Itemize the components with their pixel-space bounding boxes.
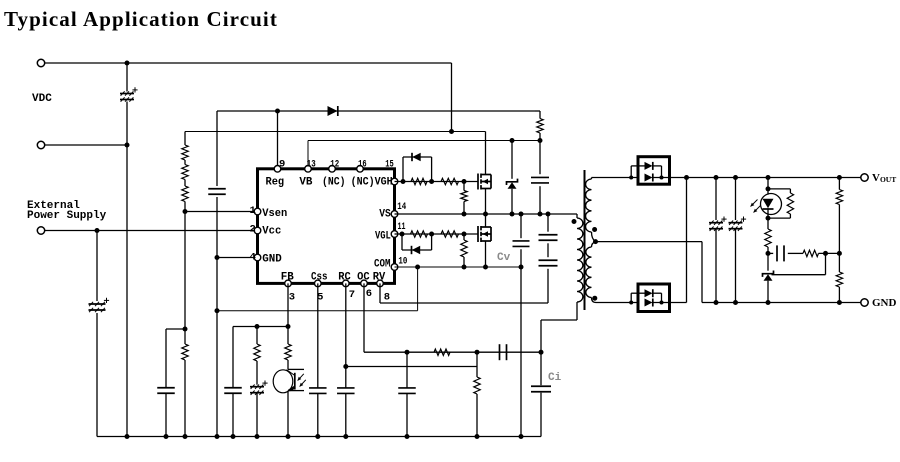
wire secondary lower to rectifier [596, 302, 638, 304]
wire rectifier upper out [653, 177, 687, 179]
svg-text:9: 9 [279, 159, 285, 171]
svg-text:VDC: VDC [32, 93, 52, 105]
node ground bus x166 [164, 434, 169, 439]
inductor T1 primary [577, 214, 583, 320]
capacitor RC [337, 388, 355, 394]
terminal Vout [861, 174, 868, 181]
wire RV return row [217, 265, 420, 311]
node primary phase dot [572, 219, 577, 224]
wire bulk cap column [126, 63, 128, 437]
label FB [281, 272, 294, 284]
wire Reg bootstrap row [217, 111, 535, 437]
node ground bus x521 [519, 434, 524, 439]
node FB divider mid [766, 251, 771, 256]
capacitor bootstrap VB-VS [531, 141, 549, 215]
zener VB-VS clamp [507, 141, 518, 215]
svg-text:10: 10 [398, 256, 407, 268]
pin 13 VB [305, 166, 312, 173]
pin 14 VS [391, 211, 398, 218]
node LED top [766, 186, 771, 191]
svg-text:(NC): (NC) [322, 177, 346, 189]
svg-text:7: 7 [349, 289, 355, 301]
diode rectifier lower (dual) [629, 284, 669, 312]
label pin14 [397, 201, 406, 213]
diode opto LED [751, 178, 782, 219]
wire VDC top rail [44, 63, 451, 132]
label VS [379, 209, 391, 221]
node ground bus x477 [475, 434, 480, 439]
svg-text:RC: RC [338, 272, 351, 284]
node GND e [837, 300, 842, 305]
node ground bus x127 [125, 434, 130, 439]
capacitor FB branch (electrolytic) [250, 381, 268, 437]
pin 2 Vcc [254, 227, 261, 234]
wire Css pin drop [317, 283, 319, 436]
node COM a [462, 265, 467, 270]
label pin2 [250, 223, 256, 235]
node secondary phase dot lower [592, 296, 597, 301]
label pin6 [366, 288, 372, 300]
node OC b [475, 350, 480, 355]
node Vout a [684, 175, 689, 180]
svg-text:Ci: Ci [548, 372, 562, 384]
svg-text:15: 15 [385, 159, 394, 171]
wire transformer core [584, 170, 586, 310]
diode VGL bypass [412, 246, 421, 254]
wire lower drain [485, 214, 487, 227]
node ground bus x407 [405, 434, 410, 439]
node ground bus x288 [286, 434, 291, 439]
label pin13 [307, 159, 316, 171]
wire GND rail [702, 302, 861, 304]
svg-text:FB: FB [281, 272, 294, 284]
capacitor Vcc filter (electrolytic) [89, 298, 110, 312]
capacitor comp series [768, 245, 803, 261]
label pin10 [398, 256, 407, 268]
resistor FB branch [254, 327, 260, 385]
terminal GND [861, 299, 868, 306]
label pin16 [358, 159, 367, 171]
svg-text:VS: VS [379, 209, 391, 221]
resistor VGH pulldown [461, 182, 467, 215]
wire Vcc filter column [97, 231, 541, 437]
capacitor output 2 (electrolytic) [729, 178, 747, 303]
label pin7 [349, 289, 355, 301]
capacitor divider filter [157, 388, 175, 394]
resistor bootstrap [537, 119, 543, 134]
wire VGH row [395, 181, 479, 183]
resistor sense lower [182, 344, 188, 360]
label pin15 [385, 159, 394, 171]
node VDC bulk junction top [125, 61, 130, 66]
label pin5 [317, 292, 323, 304]
resistor OC row [434, 349, 450, 355]
svg-text:RV: RV [373, 272, 386, 284]
wire sense lower column [184, 212, 186, 437]
wire FB row [233, 327, 288, 437]
svg-text:8: 8 [384, 291, 390, 303]
node comp end [823, 251, 828, 256]
diode rectifier upper (dual) [629, 157, 669, 185]
inductor T1 secondary lower [586, 242, 596, 303]
pin 12 NC [329, 166, 336, 173]
wire FB pin drop [287, 283, 289, 326]
label Reg [266, 177, 285, 189]
node RV return junction [215, 308, 220, 313]
node ground bus x345 [343, 434, 348, 439]
capacitor Css [309, 388, 327, 394]
pin 6 OC [361, 280, 368, 287]
label pin3 [289, 292, 295, 304]
node VS b [483, 212, 488, 217]
capacitor output 1 (electrolytic) [709, 178, 727, 303]
resistor VGL pulldown [461, 234, 467, 267]
node Vout d [766, 175, 771, 180]
node VB zener junction [510, 138, 515, 143]
label pin12 [330, 159, 339, 171]
capacitor FB a [224, 388, 242, 394]
resistor gate VGL 2 [441, 231, 459, 237]
node FB mid [255, 324, 260, 329]
svg-text:13: 13 [307, 159, 316, 171]
wire GND pin row [217, 257, 258, 259]
wire Vsen pin [185, 211, 258, 213]
node VB cap junction [538, 138, 543, 143]
node COM b [483, 265, 488, 270]
capacitor Ci [531, 386, 551, 392]
node VS c [510, 212, 515, 217]
svg-text:Css: Css [311, 272, 328, 284]
label External Power Supply [27, 200, 107, 222]
wire Vout rail [687, 177, 862, 179]
capacitor OC filter [398, 388, 416, 394]
node VS d [519, 212, 524, 217]
label Cv [497, 252, 511, 264]
wire VGL row [395, 233, 479, 235]
wire secondary upper to rectifier [592, 177, 639, 179]
label GND right [872, 297, 897, 309]
pin 11 VGL [391, 231, 398, 238]
svg-text:OC: OC [357, 272, 370, 284]
node comp rail [837, 251, 842, 256]
op-amp U1 (controller IC) [258, 169, 395, 284]
resistor gate VGH 1 [411, 178, 427, 184]
node VGL b [429, 232, 434, 237]
svg-text:Reg: Reg [266, 177, 285, 189]
wire COM row [395, 266, 522, 268]
capacitor OC series [500, 344, 507, 360]
node GND c [733, 300, 738, 305]
resistor sense divider column [182, 132, 188, 213]
node VGH b [429, 179, 434, 184]
svg-text:Vcc: Vcc [262, 226, 281, 238]
wire VB row [308, 141, 540, 169]
label RC [338, 272, 351, 284]
transistor Q2 (lower MOSFET) [478, 226, 491, 242]
svg-text:12: 12 [330, 159, 339, 171]
node OC a [405, 350, 410, 355]
wire RC pin drop [345, 283, 347, 436]
svg-text:GND: GND [262, 253, 282, 265]
svg-text:16: 16 [358, 159, 367, 171]
node ground bus x257 [255, 434, 260, 439]
wire Vsen sense row [185, 131, 486, 133]
svg-text:11: 11 [398, 221, 406, 233]
node Vout c [733, 175, 738, 180]
svg-text:2: 2 [250, 223, 256, 235]
svg-text:3: 3 [289, 292, 295, 304]
label VGL [375, 231, 391, 243]
node VGL c [462, 232, 467, 237]
wire bootstrap resistor column [535, 111, 540, 141]
wire VGL bypass [402, 234, 432, 250]
wire RV row [380, 283, 548, 303]
resistor gate VGH 2 [441, 178, 459, 184]
wire upper FET drain drop [485, 132, 487, 175]
label Vsen [262, 208, 287, 220]
wire Vcc row [44, 230, 257, 232]
node secondary phase dot upper [592, 227, 597, 232]
node OC end on Ci column [539, 350, 544, 355]
node center tap [593, 239, 598, 244]
diode bootstrap D1 [328, 106, 338, 116]
label pin9 [279, 159, 285, 171]
node VGH a [401, 179, 406, 184]
wire rectifier lower out [653, 178, 687, 303]
resistor divider lower [836, 253, 842, 302]
wire Ci column [541, 320, 577, 437]
diode VGH bypass [412, 153, 421, 161]
svg-text:VB: VB [299, 177, 312, 189]
svg-text:Vsen: Vsen [262, 208, 287, 220]
label NC12 [322, 177, 346, 189]
svg-text:14: 14 [397, 201, 406, 213]
wire upper source [485, 189, 487, 215]
resistor FB lower [285, 327, 291, 370]
pin 9 Reg [274, 166, 281, 173]
node VDC return junction [125, 143, 130, 148]
node LED bottom [766, 216, 771, 221]
pin 16 NC [357, 166, 364, 173]
label pin11 [398, 221, 406, 233]
pin 15 VGH [391, 178, 398, 185]
label COM [374, 259, 391, 271]
node COM c [519, 265, 524, 270]
wire VS row [395, 213, 578, 215]
svg-text:Power Supply: Power Supply [27, 210, 107, 222]
node GND d [766, 300, 771, 305]
label OC [357, 272, 370, 284]
label pin8 [384, 291, 390, 303]
pin 3 FB [285, 280, 292, 287]
svg-text:COM: COM [374, 259, 391, 271]
node Reg pin junction [275, 109, 280, 114]
resistor gate VGL 1 [411, 231, 428, 237]
wire RC row [346, 366, 477, 368]
resistor divider upper [836, 178, 842, 254]
svg-text:VGL: VGL [375, 231, 391, 243]
label VB [299, 177, 312, 189]
label pin4 [250, 251, 256, 263]
label NC16 VGH [351, 177, 393, 189]
pin 1 Vsen [254, 208, 261, 215]
pin 4 GND [254, 254, 261, 261]
transistor opto phototransistor [273, 369, 306, 436]
svg-text:Cv: Cv [497, 252, 511, 264]
node GND b [714, 300, 719, 305]
label VDC [32, 93, 52, 105]
wire VDC return [44, 144, 127, 146]
wire branch to cap [166, 329, 185, 437]
zener shunt regulator (TL431) [763, 253, 774, 302]
wire lower source [485, 241, 487, 267]
wire center tap to gnd [596, 242, 703, 303]
node Vout b [714, 175, 719, 180]
inductor T1 secondary upper [586, 178, 596, 242]
resistor LED parallel [768, 189, 794, 218]
node VGH c [462, 179, 467, 184]
terminal External supply [37, 227, 44, 234]
node FB row end [286, 324, 291, 329]
svg-text:6: 6 [366, 288, 372, 300]
transistor Q1 (upper MOSFET) [478, 174, 491, 190]
resistor LED series [765, 218, 771, 253]
terminal VDC- [37, 141, 44, 148]
wire Reg pin drop [277, 111, 279, 169]
capacitor VDC bulk (electrolytic) [120, 87, 138, 101]
node VS a [462, 212, 467, 217]
svg-text:1: 1 [250, 205, 256, 217]
node ground bus x233 [231, 434, 236, 439]
node ground bus x317 [315, 434, 320, 439]
node ground bus x185 [183, 434, 188, 439]
wire OC pin drop [364, 283, 541, 352]
node Vout e [837, 175, 842, 180]
node divider cap branch [183, 327, 188, 332]
label Vout [872, 172, 896, 184]
pin 7 RC [343, 280, 350, 287]
label Ci [548, 372, 562, 384]
node VGL a [400, 232, 405, 237]
capacitor divider upper [539, 214, 558, 303]
svg-text:GND: GND [872, 297, 897, 309]
node Vsen junction [183, 209, 188, 214]
capacitor Cv [513, 214, 530, 437]
capacitor on GND column [208, 189, 226, 195]
node Vcc filter junction [95, 228, 100, 233]
title [4, 7, 278, 31]
label RV [373, 272, 386, 284]
terminal VDC+ [37, 59, 44, 66]
pin 8 RV [377, 280, 384, 287]
label Vcc [262, 226, 281, 238]
label pin1 [250, 205, 256, 217]
node GND pin junction [215, 255, 220, 260]
pin 5 Css [315, 280, 322, 287]
node VS e [538, 212, 543, 217]
node RC row junction [343, 364, 348, 369]
node VS f [546, 212, 551, 217]
svg-text:(NC)VGH: (NC)VGH [351, 177, 393, 189]
wire VGH bypass [403, 157, 432, 182]
svg-text:4: 4 [250, 251, 256, 263]
node ground bus x217 [215, 434, 220, 439]
svg-text:Typical Application Circuit: Typical Application Circuit [4, 7, 278, 31]
resistor comp [803, 250, 819, 256]
label Css [311, 272, 328, 284]
pin 10 COM [391, 264, 398, 271]
wire comp to ref [772, 253, 840, 274]
resistor RC end [474, 352, 480, 436]
label GND [262, 253, 282, 265]
node sense/VDC junction [449, 129, 454, 134]
wire OC cap drop [406, 352, 408, 436]
